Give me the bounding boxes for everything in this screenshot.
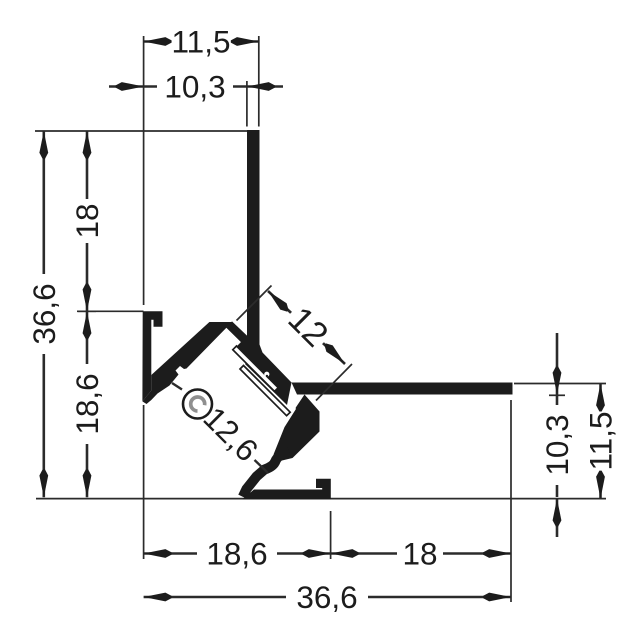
svg-text:18: 18 (69, 203, 105, 238)
extension line: bottom-dim right (x=511) (510, 400, 512, 602)
extension line: top-dim wall-left (x=246.9) (246, 81, 248, 127)
extension line: bottom-dim left (x=143.6) (143, 405, 145, 559)
dimension 10,3 (right, outside arrows, vertical) (556, 333, 559, 395)
svg-text:18: 18 (402, 536, 437, 572)
profile: arm-body neck (under V-notch) (226, 321, 248, 342)
svg-text:18,6: 18,6 (206, 536, 267, 572)
svg-text:36,6: 36,6 (296, 579, 357, 615)
dimension 18,6 (bottom left) (144, 552, 331, 555)
profile: SE wing (upper chunk) (274, 395, 320, 461)
svg-text:11,5: 11,5 (583, 412, 619, 471)
dimension 36,6 (left, vertical) (42, 131, 45, 497)
dimension 18,6 (left lower, vertical) (86, 311, 89, 497)
dimension 11,5 (top, inside arrows) (144, 40, 259, 43)
dimension 18 (bottom right) (331, 552, 511, 555)
tick: 10,3 right reference at bar bottom (549, 394, 565, 396)
LED slat 1 (white, outlined) (233, 346, 278, 391)
extension line: top of profile extended left (35, 130, 248, 132)
profile: main body (wall + NE corner face + seat + neck) (227, 130, 292, 405)
svg-text:11,5: 11,5 (172, 24, 231, 60)
extension line: bottom of profile (full) (36, 498, 606, 500)
dimension 10,3 (top, outside arrows) (109, 85, 144, 88)
extension line: right top edge of bar extended right (514, 383, 606, 385)
svg-text:18,6: 18,6 (69, 373, 105, 434)
dimension 18 (left upper, vertical) (86, 131, 89, 311)
leader dash-dot line for 12,6 (172, 383, 182, 390)
dimension 12 (diagonal channel opening) (237, 286, 272, 321)
dimension 11,5 (right, inside arrows, vertical) (599, 384, 602, 499)
extension line: bottom-dim middle (x=330.6) (330, 511, 332, 559)
screw hole mark (white crescent + dark pip) (264, 372, 269, 377)
LED slat 2 (white, outlined) (240, 366, 290, 416)
dimension 36,6 (bottom overall) (144, 596, 511, 599)
extension line: top-dim wall-right (x=258.8) (258, 36, 260, 127)
extension line: top-dim left (x=143.6) (143, 36, 145, 305)
profile: mounting hook (top-left) (142, 311, 162, 401)
extension line: hook top extended left (77, 310, 144, 312)
svg-text:10,3: 10,3 (164, 69, 225, 105)
profile: horizontal bar (right leg) (292, 383, 513, 395)
svg-text:36,6: 36,6 (26, 283, 62, 344)
profile: base plate with lip (bottom leg, mirror of hook) (242, 479, 331, 500)
tick: 18/18,6 junction left (78, 310, 96, 312)
profile: SE wing lower band with screw-groove wave (243, 451, 289, 497)
profile: left arm plate (ridge + zigzag + mouth lip) (142, 322, 232, 404)
svg-text:10,3: 10,3 (539, 414, 575, 475)
circle symbol (C in circle) (183, 390, 212, 419)
